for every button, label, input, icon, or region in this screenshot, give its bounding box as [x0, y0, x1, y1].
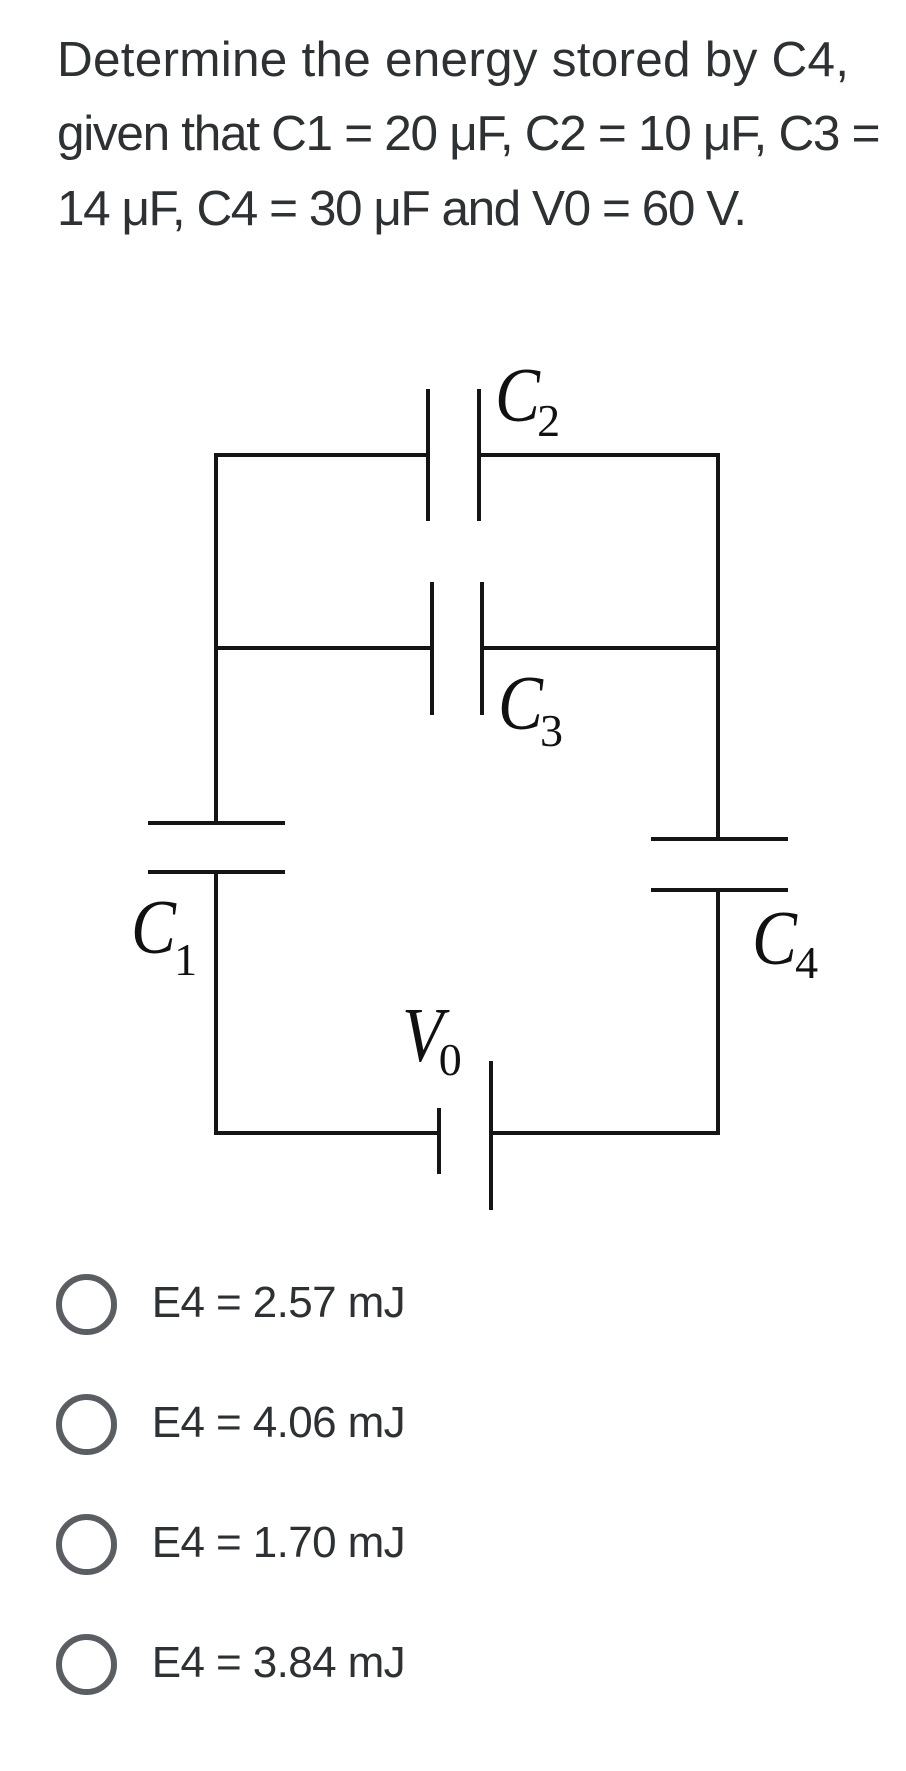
battery V0 short plate	[437, 1108, 441, 1174]
capacitor C4 top plate	[651, 837, 788, 841]
radio button option 3	[56, 1514, 117, 1575]
label V0	[401, 996, 403, 998]
radio button option 4	[56, 1634, 117, 1695]
circuit schematic	[0, 0, 906, 1]
wire: left rail lower segment (C1 bottom plate to bottom wire)	[214, 870, 218, 1135]
wire: left rail upper segment (top node to C1 top plate)	[214, 453, 218, 825]
capacitor C1 top plate	[148, 821, 285, 825]
capacitor C2 left plate	[426, 389, 430, 521]
capacitor C2 right plate	[477, 389, 481, 521]
label C4	[751, 899, 753, 901]
battery V0 long plate	[489, 1061, 493, 1210]
wire: right rail upper segment (top node to C4 top plate)	[716, 453, 720, 841]
wire: middle-left segment (left rail to C3 left plate)	[214, 646, 434, 650]
capacitor C4 bottom plate	[651, 888, 788, 892]
question text	[57, 23, 879, 247]
wire: top-left segment (left rail to C2 left plate)	[214, 453, 430, 457]
capacitor C3 left plate	[430, 582, 434, 715]
wire: right rail lower segment (C4 bottom plate to bottom wire)	[716, 888, 720, 1135]
label C3	[497, 664, 499, 666]
wire: bottom-right segment (V0 long plate to right rail)	[489, 1131, 720, 1135]
radio button option 2	[56, 1394, 117, 1455]
wire: bottom-left segment (left rail to V0 short plate)	[214, 1131, 441, 1135]
label C1	[130, 888, 132, 890]
capacitor C3 right plate	[480, 582, 484, 715]
wire: top-right segment (C2 right plate to right rail)	[477, 453, 720, 457]
wire: middle-right segment (C3 right plate to right rail)	[480, 646, 720, 650]
radio button option 1	[56, 1274, 117, 1335]
capacitor C1 bottom plate	[148, 870, 285, 874]
label C2	[494, 356, 496, 358]
